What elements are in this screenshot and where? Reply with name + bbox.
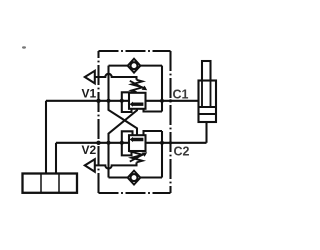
svg-text:C2: C2 <box>174 144 190 158</box>
spring valve1 <box>132 80 143 92</box>
tank arrow 1 <box>85 71 95 84</box>
svg-text:C1: C1 <box>173 87 189 101</box>
wire pilot diagonal valve2 to V1 <box>109 101 138 135</box>
check valve 2 <box>128 171 141 185</box>
relief valve 1 body <box>129 93 146 109</box>
cylinder body <box>199 81 217 123</box>
svg-text:V1: V1 <box>82 87 97 101</box>
wire check valve 1 bypass top <box>109 65 163 67</box>
wire V2 riser from valve block <box>55 143 57 174</box>
svg-text:V2: V2 <box>82 143 97 157</box>
tank arrow 2 <box>85 159 95 172</box>
dust speck <box>22 46 26 48</box>
wire C2 pilot loop <box>144 131 163 135</box>
wire V1-C1 main line <box>46 100 199 102</box>
wire check1 right leg <box>161 66 163 112</box>
wire check2 right leg <box>161 131 163 178</box>
cylinder rod inside <box>202 81 211 108</box>
wire check2 left leg <box>107 143 109 178</box>
relief valve 2 body <box>129 135 146 151</box>
wire cylinder bottom port <box>205 122 207 143</box>
wire pilot loop valve2 <box>122 131 133 155</box>
wire pilot diagonal valve1 to V2 <box>109 109 138 143</box>
check valve 1 <box>128 59 141 73</box>
cylinder rod outside <box>202 61 211 81</box>
wire C1 pilot loop <box>144 109 163 112</box>
wire pilot loop valve1 <box>122 92 132 112</box>
valve1 flow arrow <box>130 102 144 107</box>
spring valve2 <box>132 150 143 162</box>
valve2 flow arrow <box>130 137 144 142</box>
wire V1 riser from valve block <box>45 101 47 174</box>
wire check1 left leg <box>107 66 109 110</box>
block dividers <box>41 174 59 193</box>
enclosure dash-dot box <box>99 51 171 193</box>
wire drain line valve2 with jump <box>95 162 137 168</box>
adjust arrow valve1 <box>130 81 144 89</box>
directional valve block <box>23 174 78 193</box>
wire drain line valve1 with jump <box>95 74 137 80</box>
wire check valve 2 bypass bottom <box>109 176 163 178</box>
adjust arrow valve2 <box>130 154 144 162</box>
junction dots <box>96 99 172 145</box>
cylinder piston <box>199 107 217 114</box>
wire V2-C2 main line <box>56 142 207 144</box>
